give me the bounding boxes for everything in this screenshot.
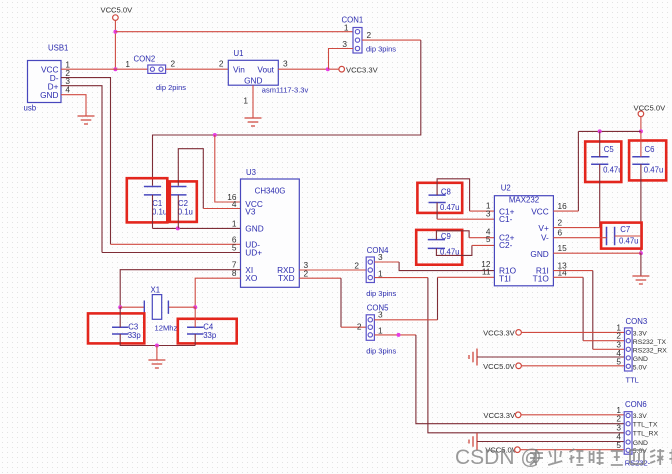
svg-text:1: 1 [344, 22, 349, 32]
svg-text:1: 1 [378, 326, 383, 336]
svg-text:VCC5.0V: VCC5.0V [483, 362, 516, 371]
wire U3 XO to crystal [195, 278, 240, 307]
wire C9 bottom to U2 C2- pin5 [436, 245, 472, 255]
svg-text:GND: GND [40, 90, 58, 100]
svg-text:0.47u: 0.47u [619, 237, 639, 246]
svg-text:dip 2pins: dip 2pins [156, 83, 186, 92]
svg-text:2: 2 [219, 59, 224, 69]
svg-text:usb: usb [24, 104, 37, 113]
wire CON4 pin1 down to CON6 TTL_RX [374, 277, 428, 279]
wire VCC5.0V to CON3 pin5 [521, 365, 624, 367]
svg-text:33p: 33p [128, 331, 142, 340]
watermark CJK glyph blocks [530, 449, 672, 465]
wire USB1 pin2 D- down to UD- [61, 78, 111, 245]
svg-text:4: 4 [232, 199, 237, 209]
svg-text:C1-: C1- [499, 214, 513, 224]
wire U3 XI to crystal [120, 270, 240, 308]
svg-text:TTL_TX: TTL_TX [633, 422, 658, 429]
svg-text:asm1117-3.3v: asm1117-3.3v [262, 86, 309, 95]
svg-text:CSDN @: CSDN @ [455, 446, 542, 469]
svg-text:Vout: Vout [257, 65, 274, 75]
wire U2 GND pin15 to ground node [553, 252, 641, 254]
svg-text:6: 6 [558, 228, 563, 238]
svg-text:0.1u: 0.1u [152, 208, 167, 217]
capacitor C4 33p [187, 322, 217, 340]
junction at 3.3V node [326, 67, 330, 71]
wire U1 Vout to VCC3.3V [278, 68, 339, 70]
wire U2 T1O pin14 to CON3 RS232_TX [553, 276, 583, 278]
capacitor C7 0.47u [607, 225, 639, 246]
highlight box around C3 [88, 313, 144, 343]
svg-text:14: 14 [558, 267, 568, 277]
wire C2 top to U3 V3 pin4 [178, 149, 203, 209]
svg-text:12Mhz: 12Mhz [155, 324, 178, 333]
junction at U2 GND node [639, 251, 643, 255]
svg-text:0.1u: 0.1u [178, 208, 193, 217]
wire C7 right to ground node [615, 235, 641, 237]
wire CON5 pin3 to U2 T1I pin11 [374, 319, 437, 321]
svg-text:3: 3 [378, 252, 383, 262]
wire crystal left [120, 306, 144, 308]
connector CON6 (RS232) [624, 400, 650, 468]
svg-text:3: 3 [342, 39, 347, 49]
connector CON2 [134, 55, 187, 93]
svg-text:GND: GND [244, 75, 262, 85]
wire C4 top stub [194, 307, 196, 327]
wire C4 bottom stub [194, 334, 196, 346]
ground (USB shield) [78, 116, 95, 124]
svg-text:1: 1 [232, 218, 237, 228]
svg-text:2: 2 [367, 30, 372, 40]
svg-text:T1I: T1I [499, 273, 511, 283]
wire 5V rail to U2 VCC pin16 [578, 130, 641, 132]
highlight box around C1 [127, 178, 168, 222]
ground (U1) [245, 118, 262, 126]
svg-text:V3: V3 [245, 206, 256, 216]
svg-text:C6: C6 [645, 145, 655, 154]
wire USB1 pin1 VCC to CON2 pin1 [61, 68, 148, 70]
svg-text:15: 15 [558, 243, 568, 253]
highlight box around C6 [629, 141, 666, 181]
svg-text:UD+: UD+ [245, 248, 262, 258]
svg-text:TXD: TXD [278, 273, 295, 283]
svg-text:dip 3pins: dip 3pins [366, 289, 396, 298]
junction crystal gnd [155, 344, 159, 348]
svg-text:VCC3.3V: VCC3.3V [483, 411, 516, 420]
wire ground stub (right) [640, 253, 642, 276]
capacitor C8 0.47u [429, 187, 460, 212]
svg-text:2: 2 [354, 260, 359, 270]
highlight box around C8 [417, 183, 462, 213]
svg-text:0.47u: 0.47u [603, 165, 623, 174]
highlight box around C7 [601, 223, 642, 249]
svg-text:dip 3pins: dip 3pins [366, 44, 396, 53]
power port VCC3.3V (RS232 header) [483, 411, 521, 420]
svg-text:Vin: Vin [233, 65, 245, 75]
svg-text:C1: C1 [152, 199, 162, 208]
connector CON3 (TTL) [625, 317, 648, 385]
power port VCC3.3V (TTL header) [483, 328, 521, 337]
wire U2 V- pin6 to C7 left [553, 237, 606, 239]
highlight box around C4 [178, 319, 237, 344]
wire C6 top stub [640, 131, 642, 156]
svg-text:GND: GND [245, 223, 263, 233]
svg-text:5.0V: 5.0V [633, 365, 647, 372]
wire C6 bottom down to ground node [640, 164, 642, 253]
capacitor C3 33p [112, 322, 141, 340]
svg-text:VCC5.0V: VCC5.0V [634, 103, 667, 112]
svg-text:16: 16 [558, 201, 568, 211]
capacitor C9 0.47u [428, 232, 460, 257]
svg-text:dip 3pins: dip 3pins [366, 347, 396, 356]
svg-text:VCC3.3V: VCC3.3V [346, 65, 379, 74]
ground (TTL header) [469, 349, 477, 366]
capacitor C1 0.1u [144, 187, 167, 217]
junction at USB VCC tap [113, 67, 117, 71]
wire CON1 pin2 VCC-select loop to U3 VCC rail [362, 39, 421, 41]
wire C3 bottom to gnd rail [120, 334, 195, 346]
wire C5 bottom to U2 V+ pin2 [599, 164, 601, 227]
wire CON1 pin3 to 3.3V node [329, 49, 354, 70]
svg-text:C7: C7 [620, 225, 630, 234]
wire ground to CON6 pin4 [477, 441, 624, 443]
svg-text:3: 3 [486, 208, 491, 218]
svg-text:2: 2 [558, 218, 563, 228]
regulator U1 asm1117-3.3v [228, 49, 278, 85]
wire VCC5.0V to CON6 pin5 [520, 449, 624, 451]
svg-text:1: 1 [125, 59, 130, 69]
svg-text:VCC3.3V: VCC3.3V [483, 328, 516, 337]
power port VCC5.0V (RS232 header) [485, 445, 520, 454]
wire VCC3.3V to CON6 pin1 [521, 414, 624, 416]
svg-text:TTL: TTL [626, 375, 639, 384]
wire crystal right [168, 306, 195, 308]
svg-text:V-: V- [541, 233, 549, 243]
svg-text:5: 5 [616, 356, 621, 366]
wire 5V top rail to CON1 pin1 [115, 31, 353, 33]
connector CON4 [366, 246, 396, 298]
wire C5 top stub [599, 131, 601, 156]
IC U2 MAX232 [494, 183, 553, 285]
svg-text:U2: U2 [501, 183, 511, 192]
power port VCC5.0V (top left) [101, 6, 134, 21]
svg-text:2: 2 [171, 59, 176, 69]
junction on CON5 pin1 wire [397, 333, 401, 337]
wire USB1 pin4 GND to ground [61, 95, 86, 116]
highlight box around C5 [585, 142, 621, 183]
svg-text:2: 2 [357, 322, 362, 332]
wire VCC5.0V vertical to rails [114, 20, 116, 69]
svg-text:C5: C5 [604, 145, 615, 154]
wire C2 bottom to GND rail [177, 195, 179, 229]
svg-text:GND: GND [633, 356, 648, 363]
junction at 5V rail split [113, 30, 117, 34]
wire branch down to U3 VCC pin16 [215, 135, 241, 202]
svg-text:C9: C9 [441, 232, 451, 241]
wire VCC3.3V to CON3 pin1 [521, 331, 624, 333]
junction at U3 VCC branch [213, 133, 217, 137]
svg-text:GND: GND [633, 440, 648, 447]
capacitor C6 0.47u [632, 145, 663, 175]
junction XI / C3 / X1 [118, 305, 122, 309]
junction at C6 top [639, 129, 643, 133]
svg-text:0.47u: 0.47u [644, 165, 664, 174]
svg-text:U1: U1 [234, 49, 244, 58]
wire U3 TXD to CON5 pin2 [299, 277, 341, 279]
wire C1 bottom to GND rail [152, 195, 154, 229]
crystal X1 12Mhz [144, 285, 177, 332]
connector USB1 [24, 44, 69, 113]
svg-text:0.47u: 0.47u [440, 203, 460, 212]
svg-text:1: 1 [243, 96, 248, 106]
IC U3 CH340G [241, 168, 300, 287]
junction at C5 top [598, 129, 602, 133]
svg-text:XO: XO [245, 273, 258, 283]
capacitor C2 0.1u [170, 187, 193, 217]
wire U1 GND down [252, 85, 254, 118]
svg-text:33p: 33p [203, 331, 217, 340]
svg-text:C2-: C2- [499, 240, 513, 250]
svg-text:3.3V: 3.3V [633, 330, 647, 337]
ground (MAX232 / C6 / C7) [632, 276, 649, 284]
junction C2 bottom on GND rail [176, 226, 180, 230]
svg-text:RS232-: RS232- [625, 458, 651, 467]
wire C8 top to U2 C1+ pin1 [437, 179, 470, 211]
wire C9 top to U2 C2+ pin4 [436, 231, 469, 240]
wire CON4 pin3 to U2 R1O pin12 [374, 261, 399, 263]
svg-text:GND: GND [530, 249, 548, 259]
svg-text:T1O: T1O [533, 273, 550, 283]
wire CON5 pin1 to CON6 TTL_TX [374, 334, 416, 336]
svg-text:CH340G: CH340G [255, 186, 286, 195]
svg-text:TTL_RX: TTL_RX [633, 431, 659, 438]
wire UD+ into U3 pin5 [102, 252, 241, 254]
junction XO / C4 / X1 [193, 305, 197, 309]
svg-text:U3: U3 [246, 168, 256, 177]
svg-text:3: 3 [378, 310, 383, 320]
svg-text:3.3V: 3.3V [633, 413, 647, 420]
wire C3 top stub [119, 307, 121, 327]
wire ground to CON3 pin4 [477, 356, 625, 358]
power port VCC5.0V (right) [634, 103, 667, 116]
svg-text:CON2: CON2 [134, 55, 156, 64]
connector CON1 [342, 16, 397, 54]
connector CON5 [366, 304, 396, 356]
svg-text:USB1: USB1 [48, 44, 68, 53]
wire C8 bottom to U2 C1- pin3 [436, 203, 438, 220]
svg-text:11: 11 [482, 266, 491, 276]
power port VCC3.3V (at U1 output) [339, 65, 379, 74]
wire U3 RXD to CON4 pin2 [299, 269, 366, 271]
wire CON2 pin2 to U1 Vin [166, 68, 229, 70]
svg-text:RS232_RX: RS232_RX [633, 348, 667, 355]
highlight box around C2 [170, 181, 197, 222]
svg-text:C2: C2 [178, 199, 188, 208]
wire USB1 pin3 D+ down to UD+ [61, 86, 102, 253]
capacitor C5 0.47u [591, 145, 623, 175]
wire GND rail to U3 pin1 [153, 227, 241, 229]
svg-text:CON3: CON3 [626, 317, 648, 326]
svg-text:1: 1 [378, 268, 383, 278]
svg-text:C8: C8 [441, 187, 451, 196]
ground (crystal) [148, 360, 165, 368]
power port VCC5.0V (TTL header) [483, 362, 521, 371]
svg-text:5: 5 [616, 440, 621, 450]
wire VCC5.0V down to rail [640, 116, 642, 131]
svg-text:X1: X1 [151, 285, 161, 294]
highlight box around C9 [416, 230, 462, 265]
svg-text:MAX232: MAX232 [509, 196, 539, 205]
svg-text:RS232_TX: RS232_TX [633, 339, 667, 346]
svg-text:CON6: CON6 [625, 400, 647, 409]
wire gnd stub for crystal caps [156, 346, 158, 361]
wire UD- into U3 pin6 [111, 243, 241, 245]
svg-text:5: 5 [486, 234, 491, 244]
svg-text:VCC5.0V: VCC5.0V [101, 6, 134, 15]
svg-text:V+: V+ [538, 223, 549, 233]
ground (RS232 header) [469, 433, 477, 450]
wire U2 R1I pin13 to CON3 RS232_RX [553, 270, 592, 272]
svg-text:3: 3 [283, 59, 288, 69]
svg-text:VCC: VCC [531, 206, 549, 216]
svg-text:5: 5 [232, 243, 237, 253]
